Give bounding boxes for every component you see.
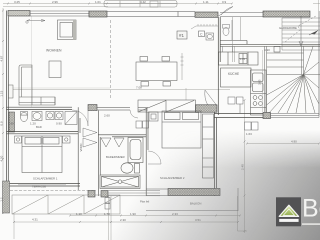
- sliding wardrobe band: [138, 100, 196, 112]
- washing machine 2: [55, 112, 63, 120]
- shower box bath2: [100, 175, 140, 189]
- hatched wall column: [9, 112, 15, 132]
- balcony wall thin left part: [146, 189, 168, 196]
- coat rack: [191, 24, 218, 29]
- right area dimension line: [247, 143, 319, 145]
- wardrobe bedroom2: [203, 114, 214, 178]
- logo bar: [279, 219, 298, 222]
- kitchen right counter: [251, 70, 267, 115]
- label box #1: [177, 31, 187, 39]
- tiny circle fixture: [26, 21, 28, 23]
- bottom dimension line: [14, 221, 238, 223]
- top wall hatched segment D: [263, 11, 310, 17]
- kitchen door swing: [205, 90, 216, 105]
- washing machine 1: [46, 112, 54, 120]
- top dimension line: [3, 3, 232, 5]
- left dimension line: [2, 8, 4, 214]
- stair top boundary: [220, 44, 320, 46]
- terrace dashed line: [10, 190, 96, 192]
- sink bowls: [253, 73, 264, 82]
- wall under kitchen dark: [214, 114, 263, 118]
- neighbour small box: [150, 1, 158, 7]
- upper stair flight top-right: [282, 16, 320, 50]
- vertical dim ext line x237: [238, 196, 248, 231]
- wall over bathroom: [7, 107, 73, 109]
- center dashed line: [110, 20, 112, 100]
- middle dimension line: [8, 89, 230, 91]
- bedroom2 right wall: [215, 112, 217, 196]
- armchair / stove square: [58, 20, 77, 40]
- coffee table: [49, 61, 61, 78]
- svg-text:Bec: Bec: [302, 195, 320, 223]
- logo square: [276, 197, 301, 226]
- kitchen dim vertical: [233, 17, 235, 62]
- neighbour sofa: [104, 1, 177, 8]
- dining table: [136, 57, 177, 87]
- vertical dim ext lines bottom-centre: [109, 196, 112, 240]
- tick marks right dim: [244, 99, 320, 232]
- balcony hatched wall: [168, 189, 220, 196]
- top wall hatched segment C: [195, 12, 218, 17]
- window band under stairs: [271, 114, 320, 118]
- wc toilet: [20, 112, 27, 121]
- top dimension line 2: [3, 6, 108, 8]
- wall continues to bedroom2: [97, 108, 148, 111]
- entry door swing top: [219, 7, 234, 17]
- wall below WC: [220, 41, 247, 45]
- window band bottom centre: [108, 191, 160, 196]
- balcony slab: [146, 188, 238, 211]
- kitchen island: [221, 68, 252, 87]
- top window band living room: [30, 11, 89, 16]
- stair boundary walls: [265, 47, 267, 113]
- hatched pier under stairs: [263, 113, 271, 119]
- toilet bath2: [121, 163, 140, 173]
- small box pair top corridor: [136, 121, 149, 128]
- terrace hatched column: [3, 181, 10, 213]
- nightstand left: [15, 136, 22, 143]
- corridor chevron wardrobe: [83, 128, 97, 147]
- fixture boxes right of kitchen door: [228, 97, 243, 113]
- bedroom1 bottom window lines: [18, 184, 66, 185]
- bath1 fixtures: [20, 112, 77, 125]
- shower bath1: [65, 112, 77, 125]
- bedroom2 door arc: [148, 151, 161, 164]
- logo inner line: [283, 209, 294, 215]
- WC right wall line: [240, 17, 242, 41]
- WC room fixtures: [223, 20, 233, 40]
- hatched wall piece right of closet: [196, 105, 218, 112]
- pier hatch 2: [101, 191, 108, 198]
- vertical dimension line right: [244, 100, 246, 233]
- bedroom1 bottom wall: [7, 184, 81, 186]
- tread box marker: [274, 47, 280, 53]
- bath2 left wall: [98, 111, 100, 197]
- top wall band middle: [107, 12, 195, 17]
- radiator dining right: [181, 53, 184, 80]
- tick marks bottom: [13, 215, 241, 224]
- small sink fixture entry: [206, 33, 214, 40]
- terrace decking: [12, 195, 120, 214]
- door hinge boxes: [105, 198, 110, 210]
- upper terrace furniture above wall: [104, 1, 177, 8]
- top wall hatched segment A: [8, 11, 30, 17]
- straight treads: [267, 53, 320, 75]
- hatched pier corridor: [88, 105, 97, 111]
- corridor right wall: [78, 107, 80, 190]
- top wall hatched segment B: [89, 11, 107, 17]
- left wall: [7, 11, 9, 187]
- garderobe door jambs: [223, 46, 233, 52]
- logo triangle: [279, 205, 298, 216]
- vertical dim line x186: [185, 88, 187, 100]
- stair direction arrow: [299, 16, 303, 46]
- wall under bathroom1: [7, 131, 79, 133]
- bath2 top wall: [98, 135, 146, 137]
- sink oval: [32, 112, 42, 121]
- door arc bedroom2 top: [130, 110, 138, 118]
- nightstand right: [63, 136, 71, 143]
- bottom dimension line 2: [70, 215, 240, 217]
- door swing corridor top: [72, 110, 88, 126]
- faint crossing line living room: [8, 87, 110, 89]
- radiator left wall: [9, 85, 14, 98]
- fixture boxes right area: [245, 122, 259, 130]
- bedroom2 left wall: [146, 108, 148, 196]
- sofa: [19, 65, 55, 105]
- pier hatch 1: [88, 191, 95, 198]
- door arrow near top window: [27, 19, 45, 21]
- logo underline: [302, 223, 320, 225]
- faint vertical line living room: [31, 16, 33, 107]
- winder treads radiating: [267, 47, 319, 114]
- kitchen dim line: [262, 50, 264, 112]
- right corner dim tick: [313, 0, 320, 11]
- stair cut line: [285, 16, 316, 42]
- stove burners: [253, 96, 257, 100]
- kitchen top counter: [219, 52, 259, 65]
- right boundary wall: [318, 11, 320, 115]
- tick marks left: [2, 10, 4, 215]
- nightstand bedroom2: [149, 112, 158, 121]
- bed 2: [162, 111, 201, 148]
- bath2 sink V marks: [101, 138, 124, 147]
- bed 1: [22, 136, 62, 173]
- vertical dimension line bottom-left: [13, 213, 15, 239]
- bathtub: [128, 138, 143, 163]
- north arrow symbol: [309, 31, 318, 36]
- top wall band right of entry: [220, 13, 263, 17]
- stair mid rail: [302, 47, 304, 75]
- entry hall wall vertical: [218, 17, 220, 115]
- label box C: [199, 31, 205, 37]
- tick marks top: [7, 3, 233, 5]
